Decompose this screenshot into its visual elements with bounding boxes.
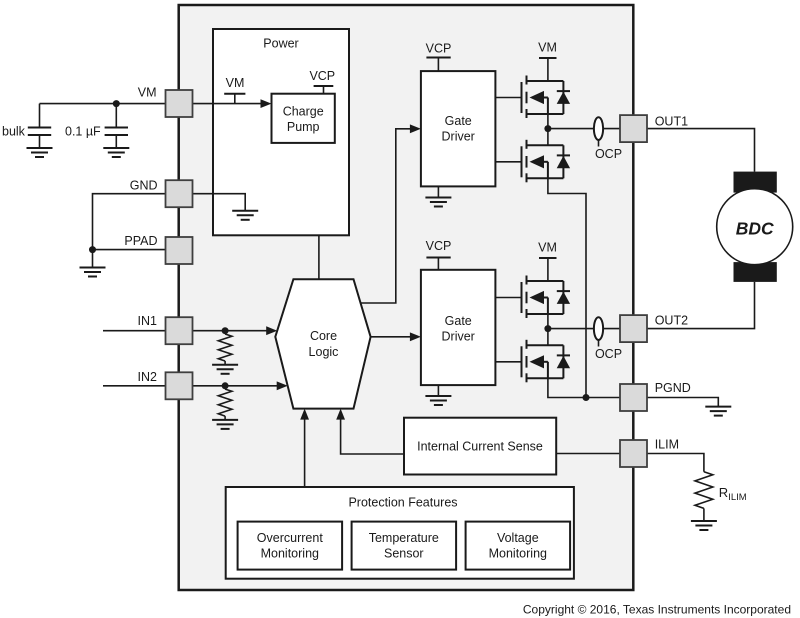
- wire internal current sense to ILIM pin: [556, 453, 620, 455]
- junction dot PPAD: [89, 246, 96, 253]
- resistor R1 (IN1 pulldown): [218, 331, 232, 365]
- ground (gate driver U3): [425, 198, 451, 207]
- svg-text:OCP: OCP: [595, 347, 622, 361]
- svg-text:Temperature: Temperature: [369, 531, 439, 545]
- pin VM: [138, 86, 193, 118]
- svg-text:Protection Features: Protection Features: [348, 496, 457, 510]
- svg-text:OCP: OCP: [595, 147, 622, 161]
- node VCP (above gate driver U3): [426, 42, 452, 72]
- wire protection features to core logic: [304, 416, 306, 487]
- wire U3 high-side gate: [495, 97, 521, 99]
- power block box: [213, 29, 349, 235]
- svg-text:VCP: VCP: [426, 239, 452, 253]
- protection features box: [226, 487, 574, 579]
- wire IN1 to core logic: [193, 330, 269, 332]
- pin OUT1: [620, 114, 688, 142]
- junction dot IN1: [222, 327, 229, 334]
- svg-text:Copyright © 2016, Texas Instru: Copyright © 2016, Texas Instruments Inco…: [523, 603, 791, 617]
- svg-text:Voltage: Voltage: [497, 531, 539, 545]
- junction dot OUT2 node: [544, 325, 551, 332]
- voltage monitoring box: [466, 522, 570, 570]
- svg-text:PGND: PGND: [655, 381, 691, 395]
- svg-text:Monitoring: Monitoring: [261, 547, 319, 561]
- ground (R1): [212, 365, 238, 374]
- arrowhead IN2 into core logic: [277, 381, 288, 390]
- transistor Q3 (OUT2 high-side nmos with body diode): [522, 276, 571, 319]
- svg-text:VM: VM: [138, 86, 157, 100]
- node VCP (above charge pump): [309, 69, 335, 94]
- wire IN2 external: [103, 385, 166, 387]
- temperature sensor box: [352, 522, 457, 570]
- svg-text:Sensor: Sensor: [384, 547, 424, 561]
- pin IN2: [138, 370, 193, 399]
- gate driver U3 (top): [421, 71, 496, 186]
- svg-text:Charge: Charge: [283, 105, 324, 119]
- junction dot: [113, 100, 120, 107]
- pin ILIM: [620, 438, 679, 468]
- wire gate driver U3 to ground: [437, 186, 439, 197]
- ground (PPAD external): [80, 268, 106, 277]
- chip body: [179, 5, 634, 590]
- svg-text:IN2: IN2: [138, 370, 158, 384]
- ground (gate driver U4): [425, 396, 451, 405]
- svg-text:BDC: BDC: [736, 219, 774, 239]
- overcurrent monitoring box: [238, 522, 343, 570]
- svg-text:Pump: Pump: [287, 120, 320, 134]
- svg-text:OUT1: OUT1: [655, 114, 688, 128]
- transistor Q1 (OUT1 high-side nmos with body diode): [522, 76, 571, 119]
- svg-text:GND: GND: [130, 179, 158, 193]
- pin GND: [130, 179, 193, 208]
- svg-text:VCP: VCP: [426, 42, 452, 56]
- charge pump U2: [272, 94, 335, 143]
- wire OUT2 pin to motor: [647, 282, 755, 329]
- ground (R2): [212, 420, 238, 429]
- svg-text:IN1: IN1: [138, 314, 158, 328]
- svg-text:0.1 µF: 0.1 µF: [65, 125, 101, 139]
- junction dot PGND rail: [583, 394, 590, 401]
- wire VM pin to external caps: [40, 103, 166, 105]
- transistor Q4 (OUT2 low-side nmos with body diode): [522, 340, 571, 383]
- wire ILIM pin to resistor: [647, 454, 704, 472]
- arrowhead into charge pump: [261, 99, 272, 108]
- arrowhead into gate driver 2: [410, 332, 421, 341]
- current sensor OCP (OUT2): [594, 317, 622, 361]
- wire U3 low-side gate: [495, 161, 521, 163]
- wire U4 high-side gate: [495, 297, 521, 299]
- capacitor bulk: [28, 104, 51, 148]
- capacitor C1 0.1uF: [105, 104, 128, 148]
- wire core logic to gate driver 1: [361, 129, 413, 303]
- wire OUT1 node to OUT1 pin: [548, 128, 620, 130]
- wire PGND pin to ground: [647, 398, 718, 407]
- svg-text:Power: Power: [263, 37, 298, 51]
- svg-text:OUT2: OUT2: [655, 314, 688, 328]
- node VM (above half-bridge 2): [538, 241, 557, 282]
- node VM (inside power block): [224, 76, 245, 104]
- wire gate driver U4 to ground: [437, 385, 439, 396]
- pin PGND: [620, 381, 691, 411]
- svg-text:VCP: VCP: [309, 69, 335, 83]
- ground (inside power block): [232, 211, 258, 220]
- arrowhead up into core logic (from current sense): [336, 409, 345, 420]
- wire VM pin to charge pump: [193, 103, 263, 105]
- wire GND pin to PPAD pin external: [93, 194, 166, 250]
- svg-text:RILIM: RILIM: [719, 485, 747, 503]
- ground (PGND): [705, 407, 731, 416]
- wire IN2 to core logic: [193, 385, 279, 387]
- transistor Q2 (OUT1 low-side nmos with body diode): [522, 140, 571, 183]
- wire Q3 source to Q4 drain: [547, 314, 549, 345]
- svg-text:Gate: Gate: [445, 314, 472, 328]
- svg-text:bulk: bulk: [2, 125, 26, 139]
- svg-text:ILIM: ILIM: [655, 438, 679, 452]
- wire internal current sense to core logic: [341, 416, 404, 454]
- wire GND pin into power block: [193, 194, 245, 211]
- core logic U1 hexagon: [275, 279, 370, 408]
- ground (0.1uF cap): [103, 148, 129, 157]
- wire core logic to gate driver 2: [371, 336, 413, 338]
- pin OUT2: [620, 314, 688, 343]
- wire OUT1 pin to motor: [647, 129, 755, 172]
- junction dot OUT1 node: [544, 125, 551, 132]
- wire power block to core logic: [318, 235, 320, 279]
- wire OUT2 node to OUT2 pin: [548, 328, 620, 330]
- wire U4 low-side gate: [495, 361, 521, 363]
- arrowhead into gate driver 1: [410, 124, 421, 133]
- ground (bulk cap): [27, 148, 53, 157]
- node VM (above half-bridge 1): [538, 41, 557, 82]
- arrowhead IN1 into core logic: [266, 326, 277, 335]
- svg-text:Driver: Driver: [442, 130, 475, 144]
- svg-text:Internal Current Sense: Internal Current Sense: [417, 440, 543, 454]
- svg-text:VM: VM: [538, 241, 557, 255]
- wire IN1 external: [103, 330, 166, 332]
- svg-text:Logic: Logic: [309, 345, 339, 359]
- motor M1 BDC: [717, 172, 793, 282]
- svg-text:Overcurrent: Overcurrent: [257, 531, 324, 545]
- node VCP (above gate driver U4): [426, 239, 452, 270]
- resistor R_ILIM: [695, 472, 747, 521]
- svg-text:Core: Core: [310, 329, 337, 343]
- svg-text:Driver: Driver: [442, 330, 475, 344]
- resistor R2 (IN2 pulldown): [218, 386, 232, 420]
- current sensor OCP (OUT1): [594, 117, 622, 161]
- svg-text:PPAD: PPAD: [124, 234, 157, 248]
- ground (R_ILIM): [691, 521, 717, 530]
- svg-text:VM: VM: [226, 76, 245, 90]
- pin IN1: [138, 314, 193, 344]
- gate driver U4 (bottom): [421, 270, 496, 385]
- wire Q4 source to PGND pin: [548, 378, 620, 397]
- wire to external ground: [92, 250, 94, 268]
- junction dot IN2: [222, 382, 229, 389]
- svg-text:Gate: Gate: [445, 114, 472, 128]
- wire Q1 source to Q2 drain: [547, 114, 549, 145]
- internal current sense box: [404, 418, 556, 475]
- svg-text:VM: VM: [538, 41, 557, 55]
- arrowhead up into core logic (from protection): [300, 409, 309, 420]
- wire Q2 source to PGND rail: [548, 178, 586, 397]
- svg-text:Monitoring: Monitoring: [489, 547, 547, 561]
- pin PPAD: [124, 234, 192, 264]
